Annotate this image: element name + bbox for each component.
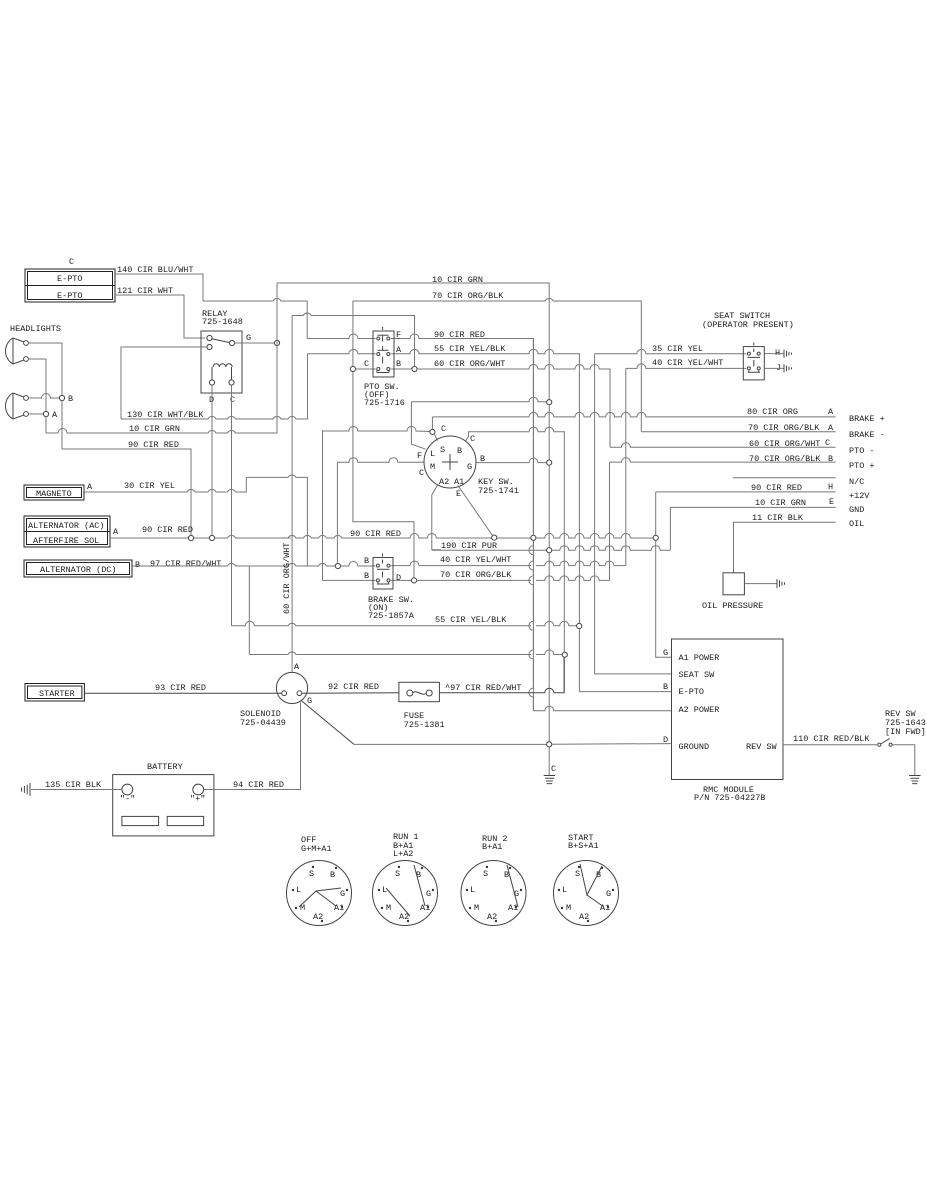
wire 130 CIR WHT/BLK row (hops D,C,277,292) to riser x307.5 <box>121 354 308 419</box>
svg-text:B+A1: B+A1 <box>482 842 502 852</box>
relay 725-1648 box <box>201 331 242 393</box>
svg-text:G: G <box>307 696 312 706</box>
key position diagram RUN 1 <box>373 832 438 926</box>
wire GROUND row y744.4 from diagonal to module D (junction 549) <box>354 743 547 745</box>
svg-text:C: C <box>69 257 74 267</box>
svg-text:A1: A1 <box>334 903 344 913</box>
wire 90 CIR RED row from lamp riser x62 to drop x191 <box>62 449 191 535</box>
node junction circle 549/462.6 <box>547 460 552 465</box>
svg-text:93 CIR RED: 93 CIR RED <box>155 683 206 693</box>
svg-text:725-1716: 725-1716 <box>364 398 405 408</box>
svg-text:PTO -: PTO - <box>849 446 875 456</box>
key switch body circle <box>424 436 476 488</box>
wire key M row y462.2 from drop x337.4 (hops 352.9, decorative 392.9) to key body <box>337 458 424 564</box>
svg-text:55 CIR YEL/BLK: 55 CIR YEL/BLK <box>435 615 507 625</box>
key switch center cross <box>442 454 458 470</box>
svg-text:M: M <box>566 903 571 913</box>
svg-text:C: C <box>230 395 235 405</box>
wire 60 CIR ORG/WHT row y447.3 from drop x610 to connector (hop 625.8) <box>610 443 836 447</box>
svg-text:E: E <box>829 497 834 507</box>
wire key C1 row y431 from riser x322.5 (hops 352.9,411.4) to key C circle <box>323 427 430 581</box>
svg-text:A: A <box>52 410 58 420</box>
svg-text:STARTER: STARTER <box>39 689 75 699</box>
svg-text:70 CIR ORG/BLK: 70 CIR ORG/BLK <box>432 291 504 301</box>
svg-text:725-04439: 725-04439 <box>240 718 286 728</box>
svg-text:A2: A2 <box>439 477 449 487</box>
svg-text:+12V: +12V <box>849 491 870 501</box>
node B circle on riser x62 <box>59 395 64 400</box>
wire solenoid G diagonal to ground row <box>301 701 354 745</box>
node key-M junction circle on 40YEL row <box>335 563 340 568</box>
connector E-PTO (double box, two rows) <box>25 269 115 302</box>
ground (battery) <box>22 783 30 796</box>
node PTO C junction circle <box>350 366 355 371</box>
svg-text:B: B <box>480 454 485 464</box>
rev switch contacts and blade <box>878 743 881 746</box>
wire riser x655.7 from 90RED junction down to module A1 POWER <box>656 540 672 657</box>
PTO switch box <box>373 331 394 377</box>
svg-text:40 CIR YEL/WHT: 40 CIR YEL/WHT <box>440 555 511 565</box>
relay switch blade <box>212 339 230 343</box>
svg-text:94 CIR RED: 94 CIR RED <box>233 780 284 790</box>
svg-text:P/N 725-04227B: P/N 725-04227B <box>694 793 765 803</box>
svg-text:BRAKE -: BRAKE - <box>849 430 885 440</box>
battery box <box>113 775 214 836</box>
svg-text:SEAT SW: SEAT SW <box>679 670 716 680</box>
wire key A2 diagonal down to 190 PUR row (hop over 90RED row) <box>432 485 441 550</box>
wire 90 CIR RED vertical x533.4 from PTO F row down to module A2 POWER row (S-hops over rows 551,566,580,626,654,692) <box>529 339 534 711</box>
wire 70 CIR ORG/BLK left segment from E-PTO 140 drop (hop 277) corner down x307.2 to 90RED row <box>203 299 307 339</box>
svg-text:PTO +: PTO + <box>849 461 875 471</box>
svg-text:A: A <box>113 527 119 537</box>
wire 70 CIR ORG/BLK row y462.1 from riser x609.5 to connector (hop 625.8) <box>610 458 836 581</box>
svg-text:GROUND: GROUND <box>679 742 710 752</box>
wire riser x46 from node A down to 10 CIR GRN row <box>45 417 47 433</box>
wire drop x249.3 from 40YEL row down to row 654 <box>248 566 250 655</box>
svg-text:10 CIR GRN: 10 CIR GRN <box>755 498 806 508</box>
wire 97/40 CIR YEL row y566 from alternator DC (hop 231) to T x249.3 then hops 292,307.4T,322.5 circle 337.9 hop 352.9 to brake switch <box>132 564 335 566</box>
magneto box <box>24 485 84 500</box>
svg-text:G: G <box>606 889 611 899</box>
seat switch internals <box>747 343 760 373</box>
svg-text:A: A <box>87 482 93 492</box>
wire A2 POWER row y710.7 from x533.4 to module (hop 549) <box>533 706 671 711</box>
wire 70 CIR ORG/BLK right segment from PTO-C riser to drop x641.3 (hop 549) <box>353 299 641 432</box>
svg-text:C: C <box>364 359 369 369</box>
svg-text:35 CIR YEL: 35 CIR YEL <box>652 344 703 354</box>
wire 90 CIR RED row y537.6 (hops 292,307.4,322.5,337.9,414,431.8; junctions 494.2,533.4,655.7; hops 549..625.8) <box>288 534 531 539</box>
svg-text:E: E <box>456 489 461 499</box>
wire 90 CIR RED row y538 from box to junctions 191,212 hop 231 <box>110 537 188 539</box>
wire 40 CIR YEL/WHT row y565.6 right part from brake to drop x625.8 (hops 414,533S,549,564,579,595,610) <box>391 561 626 566</box>
svg-text:S: S <box>309 869 314 879</box>
svg-text:G+M+A1: G+M+A1 <box>301 844 332 854</box>
svg-text:L+A2: L+A2 <box>393 849 413 859</box>
svg-text:L: L <box>382 885 387 895</box>
wire lamp1 top terminal to vertical riser x62 <box>28 343 62 395</box>
wire 93 CIR RED row from starter to solenoid left contact <box>84 692 281 694</box>
svg-text:M: M <box>474 903 479 913</box>
svg-text:B+S+A1: B+S+A1 <box>568 841 599 851</box>
svg-text:S: S <box>395 869 400 879</box>
svg-text:GND: GND <box>849 505 864 515</box>
svg-text:B: B <box>68 394 73 404</box>
svg-text:G: G <box>663 648 668 658</box>
PTO switch internals <box>377 327 390 373</box>
svg-text:B: B <box>364 571 369 581</box>
svg-text:OIL: OIL <box>849 519 864 529</box>
svg-text:S: S <box>440 445 445 455</box>
svg-text:H: H <box>775 348 780 358</box>
svg-text:90 CIR RED: 90 CIR RED <box>142 525 193 535</box>
svg-text:L: L <box>296 885 301 895</box>
wire 80 CIR ORG row y416.9 (hops 533,549,579,595,610,626,641) to connector A <box>432 412 835 416</box>
svg-text:REV SW: REV SW <box>746 742 778 752</box>
wire relay coil D down to 90 CIR RED row junction <box>211 385 213 535</box>
wire 10 CIR GRN top row from relay-G riser to drop x549 <box>277 283 549 744</box>
svg-text:G: G <box>467 462 472 472</box>
wire relay coil C down then right as 55 CIR YEL/BLK row <box>231 385 233 626</box>
node A circle on riser x46 <box>43 411 48 416</box>
svg-text:E-PTO: E-PTO <box>679 687 705 697</box>
node junction circle 549/402 <box>547 400 552 405</box>
svg-text:B: B <box>330 870 335 880</box>
wire 40YEL row continues to brake switch B contact (hop 352.9) <box>341 562 376 567</box>
svg-text:C: C <box>551 764 556 774</box>
ground (seat J) <box>784 364 792 372</box>
svg-text:92 CIR RED: 92 CIR RED <box>328 682 379 692</box>
wire key G row y462.6 from key body to 10GRN junction (hop 533) <box>476 458 547 463</box>
svg-text:C: C <box>825 438 830 448</box>
svg-text:190 CIR PUR: 190 CIR PUR <box>441 541 497 551</box>
battery terminal negative <box>122 784 133 795</box>
seat switch box <box>743 347 764 380</box>
svg-text:30 CIR YEL: 30 CIR YEL <box>124 481 175 491</box>
svg-text:11 CIR BLK: 11 CIR BLK <box>752 513 804 523</box>
key position diagram RUN 2 <box>461 834 526 926</box>
wire key L riser row y402 from x411.4 to 10GRN junction x549 (hop 533) <box>411 397 546 402</box>
svg-text:110 CIR RED/BLK: 110 CIR RED/BLK <box>793 734 870 744</box>
svg-text:A2 POWER: A2 POWER <box>679 705 720 715</box>
svg-text:M: M <box>430 462 435 472</box>
svg-text:M: M <box>386 903 391 913</box>
svg-text:B: B <box>457 446 462 456</box>
wire 35 CIR YEL row y353.8 from drop x594.6 to seat switch H (hop 641.3) <box>595 349 747 674</box>
svg-text:80 CIR ORG: 80 CIR ORG <box>747 407 798 417</box>
svg-text:MAGNETO: MAGNETO <box>36 489 72 499</box>
key position diagram OFF <box>287 835 352 926</box>
svg-text:BRAKE +: BRAKE + <box>849 414 885 424</box>
wire 90 CIR RED top row y338.5 from x307.2 through PTO F (hops 352.6,414.5) to drop x533.4 <box>307 334 533 711</box>
wire 92 CIR RED row from solenoid to fuse <box>302 692 399 694</box>
svg-text:M: M <box>300 903 305 913</box>
relay coil <box>209 364 234 385</box>
svg-text:OIL PRESSURE: OIL PRESSURE <box>702 601 763 611</box>
wire solenoid riser x292 from jog row down to solenoid A <box>291 316 293 673</box>
svg-text:"-": "-" <box>120 794 135 804</box>
svg-text:70 CIR ORG/BLK: 70 CIR ORG/BLK <box>440 570 512 580</box>
svg-text:AFTERFIRE SOL: AFTERFIRE SOL <box>33 536 99 546</box>
wire 90 CIR RED row y491.9 from riser x655.7 to connector <box>656 492 836 535</box>
svg-text:E-PTO: E-PTO <box>57 291 83 301</box>
wire key E/A1 diagonal down to 90RED row junction <box>458 486 493 536</box>
brake switch box <box>373 558 393 590</box>
svg-text:HEADLIGHTS: HEADLIGHTS <box>10 324 61 334</box>
svg-text:A1: A1 <box>600 903 610 913</box>
svg-text:E-PTO: E-PTO <box>57 274 83 284</box>
wire row y654.5 from drop x249.3 to junction x564.8 (hops 292,533S,549) <box>249 650 562 655</box>
svg-text:55 CIR YEL/BLK: 55 CIR YEL/BLK <box>434 344 506 354</box>
wire stub from ground junction down to chassis ground <box>548 747 550 775</box>
svg-text:725-1648: 725-1648 <box>202 317 243 327</box>
fuse box <box>399 682 440 701</box>
svg-text:G: G <box>426 889 431 899</box>
svg-text:BATTERY: BATTERY <box>147 762 183 772</box>
svg-text:(OPERATOR PRESENT): (OPERATOR PRESENT) <box>702 320 794 330</box>
wire relay lower contact to 130 CIR WHT/BLK row <box>121 347 207 419</box>
wire SEAT SW row y673.9 from riser x594.6 to module <box>595 673 672 675</box>
wire lamp1 bottom terminal to vertical riser x46 <box>28 359 46 411</box>
svg-text:L: L <box>470 885 475 895</box>
svg-text:B: B <box>364 556 369 566</box>
wire riser x62 from node B down to 90 CIR RED row <box>61 401 63 449</box>
battery terminal positive <box>193 784 204 795</box>
svg-text:135 CIR BLK: 135 CIR BLK <box>45 780 102 790</box>
svg-text:D: D <box>396 573 401 583</box>
wire key L riser x411.4 down to key L diagonal <box>411 402 425 449</box>
node G junction circle x277 <box>274 340 279 345</box>
wire 40 CIR YEL/WHT row y368.4 from drop x625.8 to seat switch J (hop 641.3) <box>626 364 747 566</box>
svg-text:B: B <box>396 359 401 369</box>
svg-text:L: L <box>430 449 435 459</box>
wire 121 CIR WHT from E-PTO down to relay contact <box>115 295 205 338</box>
ground (seat H) <box>784 350 792 358</box>
svg-text:725-1381: 725-1381 <box>404 720 445 730</box>
key position diagram START <box>554 833 619 926</box>
starter box <box>25 684 84 702</box>
svg-text:^97 CIR RED/WHT: ^97 CIR RED/WHT <box>445 683 522 693</box>
svg-text:C: C <box>441 424 446 434</box>
wire 30 CIR YEL row from magneto (hops 191,212,231) jog up to drop x307.4 <box>84 475 307 566</box>
wire seat H to ground <box>764 353 784 355</box>
svg-text:F: F <box>396 330 401 340</box>
relay switch contacts <box>207 335 212 340</box>
svg-text:N/C: N/C <box>849 477 864 487</box>
wire N/C stub row <box>733 477 836 479</box>
svg-text:[IN FWD]: [IN FWD] <box>885 727 926 737</box>
alternator DC box <box>24 560 132 577</box>
headlight lamp 1 <box>5 338 28 364</box>
wire 55 CIR YEL/BLK row y625.8 from relay C corner (hops 249,292,533S,549,564) to junction x579 <box>232 621 577 626</box>
svg-text:G: G <box>340 889 345 899</box>
wire 70 CIR ORG/BLK row y580.3 from riser x322.5 through brake D to riser x609.5 (hops 533S,549,564,579,595; junction 414) <box>323 579 412 581</box>
oil pressure switch box <box>723 573 744 595</box>
wire 80 CIR ORG start riser x432.4 from row 416 down to key C circle <box>431 417 433 429</box>
wire 10 CIR GRN row from lamp riser to relay G riser x277 <box>46 283 277 433</box>
svg-text:60 CIR ORG/WHT: 60 CIR ORG/WHT <box>434 359 505 369</box>
wire 70 CIR ORG/BLK row y431.7 from drop x641.3 to connector <box>641 431 835 433</box>
svg-text:B: B <box>135 560 140 570</box>
ground (center chassis) <box>544 776 555 784</box>
wire lamp2 bottom terminal to node A <box>28 413 43 415</box>
svg-text:B: B <box>596 870 601 880</box>
svg-text:S: S <box>483 869 488 879</box>
wire rev switch to right ground <box>892 745 915 776</box>
svg-text:A1 POWER: A1 POWER <box>679 653 720 663</box>
svg-text:F: F <box>417 451 422 461</box>
svg-text:A: A <box>396 345 402 355</box>
svg-text:L: L <box>562 885 567 895</box>
wire 60 CIR ORG/WHT row y369 from PTO C junction through PTO B to drop x610 (hops 533,549,579,595) <box>356 368 413 370</box>
wire 60 ORG/WHT jog row y315.5 from solenoid riser x292 (hop 307.2) to drop x414.5 <box>292 313 414 366</box>
svg-text:C: C <box>419 468 424 478</box>
svg-text:A: A <box>294 662 300 672</box>
svg-text:725-1741: 725-1741 <box>478 486 519 496</box>
battery cell rectangles <box>122 816 159 825</box>
svg-text:"+": "+" <box>190 794 205 804</box>
svg-text:C: C <box>470 434 475 444</box>
wire 97 CIR RED/WHT row from fuse corner up at x564.1 (hop 549) <box>439 657 564 693</box>
wire 190 CIR PUR row y550.2 from key A2 drop to riser x670.4 (junction 549, hops 533S,564,579,595,610,625,655) <box>432 549 547 551</box>
wire key C2 from key body up to row 431.7 and right to drop x564.3 (hops 533,549) <box>466 427 564 692</box>
wire REV SW row from module to rev switch <box>783 744 877 746</box>
svg-text:A1: A1 <box>454 477 464 487</box>
alternator AC / afterfire sol double box <box>24 516 110 547</box>
wire 55 CIR YEL/BLK row y353.8 from riser x307.5 through PTO A (hops 352.6,414.5,533.4,549.2) to drop x579.4 <box>308 349 580 691</box>
wire PTO-C riser x352.9 from 70ORG row down through C junction to row 522 <box>353 301 414 580</box>
svg-text:H: H <box>828 482 833 492</box>
wire seat J to ground <box>764 367 784 369</box>
ground (rev switch) <box>909 776 921 784</box>
node key C1 terminal circle <box>430 429 435 434</box>
wire lamp2 top terminal to node B (hop over x46) <box>28 394 59 399</box>
svg-text:G: G <box>246 333 251 343</box>
svg-text:A: A <box>828 407 834 417</box>
wire key C1 diagonal to key body <box>434 434 437 441</box>
wire 135 CIR BLK from ground to battery negative <box>31 789 122 791</box>
wire 11 CIR BLK row y522.2 from oil pressure riser x733.5 to connector <box>734 522 836 573</box>
solenoid contacts <box>282 691 287 696</box>
svg-text:B: B <box>663 682 668 692</box>
ground (oil pressure) <box>777 579 785 588</box>
RMC module box <box>672 639 784 780</box>
wire 140 CIR BLU/WHT from E-PTO to 70 ORG/BLK row <box>115 274 203 301</box>
node E diagonal junction circle on 90RED row <box>492 535 497 540</box>
svg-text:40 CIR YEL/WHT: 40 CIR YEL/WHT <box>652 358 723 368</box>
svg-text:A1: A1 <box>508 903 518 913</box>
wire 94 CIR RED from battery positive up to solenoid bottom <box>204 702 301 789</box>
svg-text:S: S <box>575 869 580 879</box>
wire relay common to node G junction <box>235 342 275 344</box>
svg-text:60 CIR ORG/WHT: 60 CIR ORG/WHT <box>282 543 292 614</box>
wire oil pressure to ground <box>744 583 777 585</box>
fuse element <box>407 690 432 696</box>
wire 10 CIR GRN row y507.4 from riser x670.4 to connector <box>670 507 835 550</box>
solenoid body circle <box>276 672 307 703</box>
svg-text:97 CIR RED/WHT: 97 CIR RED/WHT <box>150 559 221 569</box>
headlight lamp 2 <box>5 393 28 419</box>
svg-text:725-1857A: 725-1857A <box>368 611 415 621</box>
brake switch internals <box>376 554 390 585</box>
wire E-PTO row y691.6 from riser x579.4 to module <box>579 691 671 693</box>
svg-text:ALTERNATOR (AC): ALTERNATOR (AC) <box>28 521 105 531</box>
svg-text:ALTERNATOR (DC): ALTERNATOR (DC) <box>40 565 117 575</box>
